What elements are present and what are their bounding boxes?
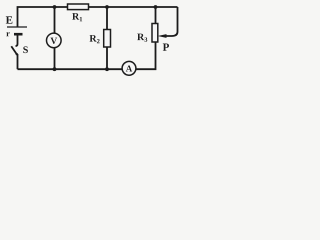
node bottom V: [53, 67, 57, 71]
node top V: [53, 5, 57, 9]
switch S blade: [11, 46, 16, 54]
wire voltmeter branch: [54, 7, 56, 69]
node top R2: [105, 5, 109, 9]
node top R3: [154, 5, 158, 9]
resistor R1: [68, 4, 89, 10]
battery E r: [7, 27, 27, 34]
ammeter A: [122, 61, 136, 75]
resistor R3: [152, 24, 158, 43]
svg-text:S: S: [23, 45, 29, 56]
svg-text:P: P: [163, 42, 170, 54]
resistor R2: [104, 30, 111, 48]
node switch pivot: [16, 53, 18, 55]
wire bottom horizontal: [18, 42, 156, 69]
svg-text:r: r: [6, 28, 10, 38]
wire right vertical to wiper: [165, 7, 178, 36]
wire top horizontal: [18, 7, 178, 27]
wire R2 branch: [106, 7, 108, 69]
voltmeter V: [47, 33, 62, 48]
svg-text:E: E: [6, 15, 13, 27]
wire switch to bottom: [17, 54, 19, 69]
node bottom R2: [105, 67, 109, 71]
wire battery to switch: [16, 35, 18, 46]
svg-text:V: V: [50, 37, 57, 47]
wire R3 top lead: [155, 7, 157, 24]
wiper arrow P: [158, 34, 167, 38]
svg-text:A: A: [126, 63, 133, 73]
